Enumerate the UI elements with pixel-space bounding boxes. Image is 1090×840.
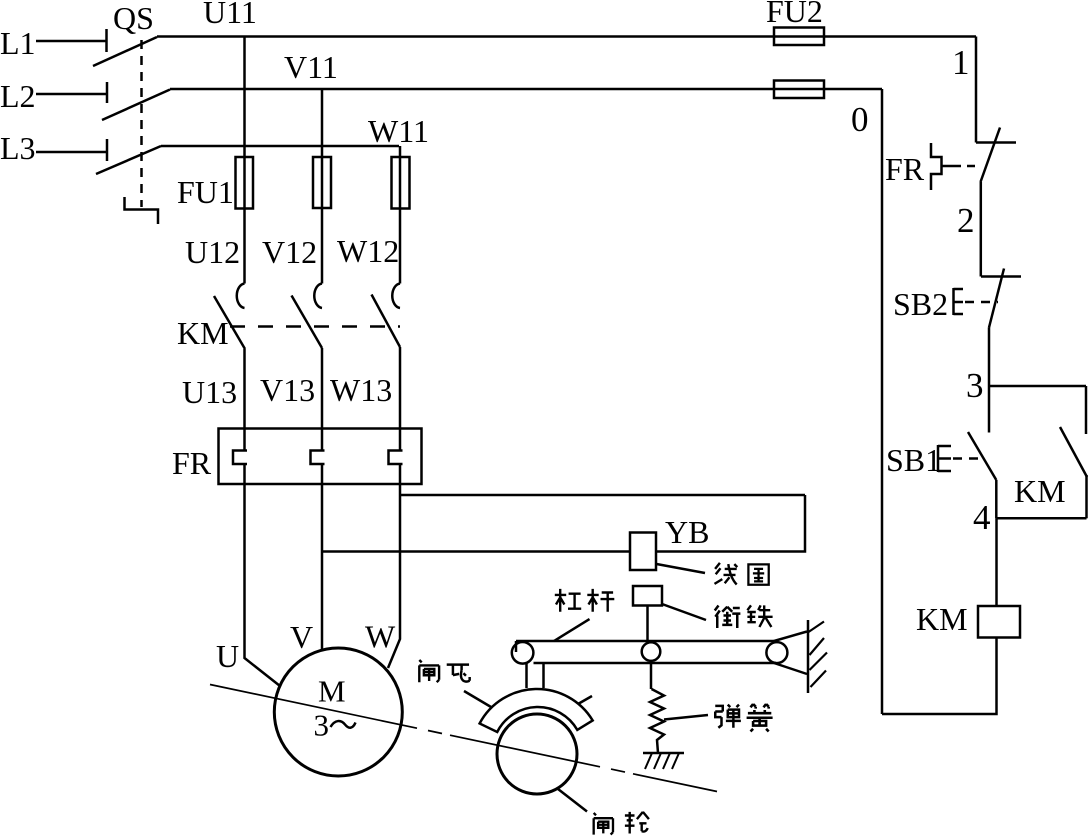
SB1 actuator dashed link (953, 457, 982, 460)
fuse FU2 pole 1 (774, 28, 824, 46)
wire YB branch right (656, 495, 805, 552)
svg-text:V11: V11 (284, 49, 338, 85)
svg-text:U11: U11 (203, 0, 257, 30)
wire W phase drop (399, 146, 402, 284)
brake arm post (527, 663, 544, 688)
svg-text:1: 1 (952, 43, 970, 82)
svg-text:U13: U13 (182, 374, 237, 410)
SB2 actuator symbol (954, 288, 964, 315)
brake wheel (497, 714, 577, 794)
svg-text:W: W (365, 619, 396, 655)
svg-text:KM: KM (177, 315, 229, 351)
QS contact post L3 (106, 139, 109, 161)
label pointer spring (664, 715, 708, 720)
svg-text:FU1: FU1 (177, 174, 234, 210)
wire node1 drop (975, 37, 978, 143)
svg-text:V12: V12 (262, 234, 317, 270)
fuse FU2 pole 2 (774, 81, 824, 99)
QS contact post L1 (105, 29, 108, 52)
KM coil (978, 606, 1020, 638)
lever bar bottom (534, 662, 777, 665)
FR actuator dashed link (953, 165, 977, 168)
spring zigzag (650, 689, 664, 753)
wire bus 0 (881, 89, 884, 714)
armature stem (646, 606, 649, 642)
lever pivot right (766, 642, 787, 663)
svg-text:L3: L3 (0, 130, 36, 166)
svg-text:FR: FR (885, 151, 925, 187)
label zhalun (brake wheel) (594, 812, 649, 835)
fuse FU1 pole 3 (392, 157, 410, 209)
KM blade pole 1 (214, 296, 245, 349)
fuse FU1 pole 2 (313, 157, 331, 208)
FR NC contact blade (981, 128, 1001, 183)
shaft center line (210, 685, 717, 792)
svg-text:SB1: SB1 (886, 442, 941, 478)
SB2 blade (989, 269, 1004, 328)
wire YB branch lower (322, 550, 630, 553)
brake shoe tick (578, 696, 592, 704)
svg-text:FR: FR (172, 445, 212, 481)
wire bus W11 row (161, 145, 399, 148)
wire node3 branch (989, 385, 1086, 388)
SB2 fixed tick (981, 275, 1021, 278)
svg-text:L1: L1 (0, 25, 36, 61)
KM fixed contact arc pole 1 (237, 284, 245, 309)
svg-text:M: M (318, 674, 346, 709)
svg-text:SB2: SB2 (893, 286, 948, 322)
svg-text:3: 3 (966, 366, 984, 405)
wall line (807, 620, 810, 693)
label xianquan (coil) (715, 563, 769, 585)
QS blade pole 3 (96, 146, 161, 174)
svg-text:W11: W11 (368, 113, 429, 149)
wire bus V11 row (170, 88, 882, 91)
phase terminal L3 (0, 130, 107, 166)
svg-text:KM: KM (1014, 473, 1066, 509)
svg-text:V: V (290, 619, 313, 655)
label tanhuang (spring) (715, 704, 772, 731)
wire W motor lead (388, 464, 400, 668)
wire U13 segment (243, 349, 246, 451)
SB2 actuator dashed link (965, 301, 998, 304)
label ganggan (lever) (555, 589, 615, 612)
wire U motor lead (245, 464, 281, 686)
FR heater element 2 (311, 451, 325, 465)
svg-text:V13: V13 (260, 372, 315, 408)
KM aux contact upper wire (1085, 386, 1088, 434)
svg-text:FU2: FU2 (766, 0, 823, 29)
wire coil to bus (882, 638, 997, 715)
QS linkage dashed (140, 40, 143, 207)
FR heater element 1 (233, 451, 247, 465)
FR heater element 3 (389, 451, 403, 465)
svg-text:KM: KM (916, 601, 968, 637)
QS handle (125, 197, 159, 224)
svg-text:0: 0 (851, 100, 869, 139)
wall bracket bottom line (774, 663, 807, 674)
wall bracket top line (774, 632, 807, 642)
lever pivot left (512, 642, 534, 664)
label pointer lever (554, 619, 590, 641)
armature block (633, 586, 662, 606)
SB1 actuator symbol (938, 445, 951, 472)
FR NC contact fixed tick (976, 141, 1016, 144)
svg-text:W12: W12 (337, 233, 399, 269)
motor M circle (274, 648, 402, 776)
label xiantie (armature) (715, 605, 773, 628)
label pointer armature (662, 604, 706, 620)
lever bar top (516, 640, 774, 643)
label pointer wheel (558, 789, 587, 812)
fuse FU1 pole 1 (236, 157, 254, 209)
QS blade pole 1 (93, 37, 157, 66)
svg-text:W13: W13 (330, 372, 392, 408)
wire coil feed (995, 518, 998, 606)
svg-text:2: 2 (957, 201, 975, 240)
wire node2 segment (980, 182, 983, 277)
spring ground hatches (645, 753, 679, 769)
thermal relay FR box (219, 429, 422, 485)
wire YB branch upper (400, 494, 805, 497)
KM linkage dashed (230, 325, 400, 328)
svg-text:4: 4 (973, 498, 991, 537)
wire node3 segment (988, 328, 991, 433)
wire V phase drop (321, 89, 324, 284)
spring ground line (643, 752, 684, 755)
svg-text:YB: YB (665, 514, 709, 550)
label zhawa (brake shoe) (419, 660, 469, 682)
phase terminal L2 (0, 78, 107, 114)
motor tilde (331, 721, 356, 728)
KM blade pole 2 (292, 296, 323, 349)
svg-text:QS: QS (113, 0, 154, 36)
wire L3 lead (36, 151, 107, 154)
wire V motor lead (321, 464, 324, 650)
wire bus U11 row (157, 35, 976, 38)
wire L1 lead (36, 40, 106, 43)
lever bar left cap (515, 641, 518, 652)
FR actuator symbol (931, 143, 953, 190)
brake coil YB (630, 533, 656, 571)
svg-text:U12: U12 (185, 234, 240, 270)
svg-text:L2: L2 (0, 78, 36, 114)
wire node4 branch (996, 517, 1086, 520)
KM aux contact blade (1060, 427, 1087, 477)
wire V13 segment (321, 348, 324, 451)
label pointer shoe (464, 691, 491, 707)
KM fixed contact arc pole 2 (314, 284, 322, 309)
wire node4 segment (995, 480, 998, 518)
wire U phase drop (243, 37, 246, 284)
phase terminal L1 (0, 25, 107, 61)
lever pivot middle (642, 642, 661, 661)
label pointer coil (657, 564, 706, 573)
SB1 blade (968, 432, 996, 480)
brake shoe (480, 689, 593, 732)
wire W13 segment (399, 347, 402, 451)
KM blade pole 3 (372, 295, 401, 348)
KM aux contact lower wire (1085, 475, 1088, 518)
svg-text:3: 3 (314, 708, 330, 743)
spring upper link (650, 661, 653, 689)
svg-text:U: U (216, 638, 239, 674)
QS contact post L2 (106, 82, 109, 103)
KM fixed contact arc pole 3 (392, 284, 400, 309)
wall hatches (809, 622, 828, 688)
wire L2 lead (36, 93, 107, 96)
QS blade pole 2 (102, 90, 170, 121)
